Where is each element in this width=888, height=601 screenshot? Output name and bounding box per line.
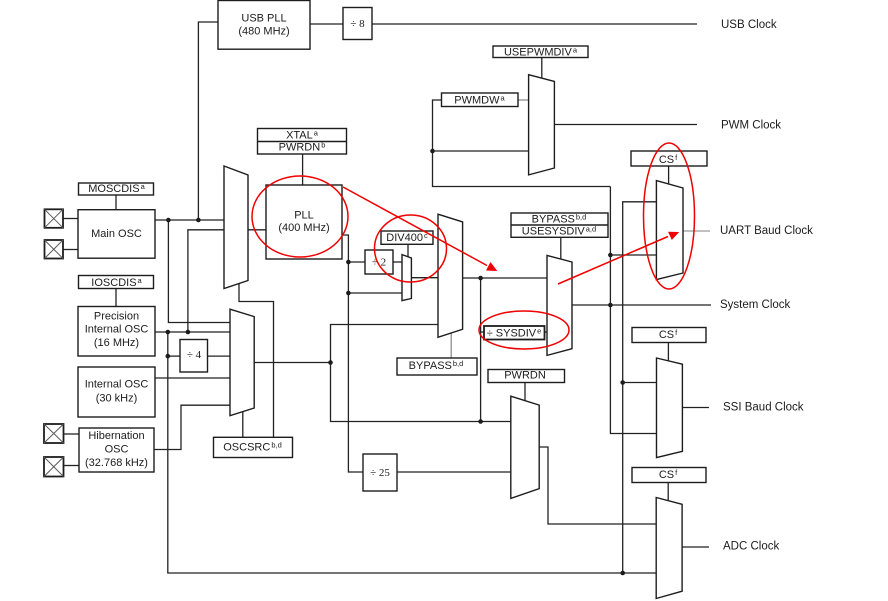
wire PLL branch to divide-by-2 bbox=[348, 261, 365, 263]
wire SSI Baud Clock output bbox=[682, 407, 709, 409]
annotation ellipse around PLL bbox=[252, 176, 348, 257]
svg-text:÷ SYSDIVe: ÷ SYSDIVe bbox=[487, 327, 542, 340]
box divide-by-8 bbox=[343, 8, 372, 40]
wire PWM Clock output bbox=[554, 124, 697, 126]
svg-text:(480 MHz): (480 MHz) bbox=[238, 26, 289, 38]
wire PIOSC branch down and bottom rail to ADC mux bbox=[168, 332, 656, 573]
svg-text:(30 kHz): (30 kHz) bbox=[96, 393, 138, 405]
svg-text:IOSCDISa: IOSCDISa bbox=[91, 276, 142, 289]
crystal pad hibernation lower bbox=[44, 457, 64, 477]
wire crystal stub lower to Main OSC bbox=[63, 249, 78, 251]
annotation arrow SYSDIV to UART mux bbox=[558, 237, 668, 285]
wire Precision OSC output to mux B bbox=[155, 331, 230, 333]
box CS SSI bbox=[632, 328, 706, 343]
wire stub into SYSDIV divider bbox=[481, 331, 484, 333]
wire USB PLL input from Main OSC node bbox=[198, 22, 218, 220]
wire CS select stub ADC bbox=[667, 481, 669, 501]
wire CS select stub SSI bbox=[667, 341, 669, 361]
svg-text:MOSCDISa: MOSCDISa bbox=[88, 182, 145, 195]
svg-text:PLL: PLL bbox=[294, 210, 314, 222]
box Hibernation OSC bbox=[79, 428, 154, 472]
wire hibernation crystal stub lower bbox=[64, 465, 80, 467]
wire mux A select to OSCSRC bbox=[239, 284, 274, 438]
mux PWM clock select bbox=[529, 75, 555, 175]
wire system clock to UART mux input 2 bbox=[610, 254, 656, 256]
svg-text:Hibernation: Hibernation bbox=[88, 430, 144, 442]
svg-text:DIV400c: DIV400c bbox=[386, 231, 428, 244]
wire UART Baud Clock output bbox=[683, 230, 710, 232]
mux SYSDIV select bbox=[547, 255, 572, 355]
annotation arrow PLL to bypass path bbox=[343, 187, 487, 266]
wire OSC net riser and feeds bbox=[331, 325, 511, 422]
svg-text:PWMDWa: PWMDWa bbox=[454, 94, 505, 107]
wire PLL output down to divide-by-25 bbox=[342, 235, 363, 472]
wire PWMDW output to PWM mux bbox=[518, 99, 529, 101]
annotation ellipse around DIV400 bbox=[375, 215, 447, 282]
wire Internal OSC output to mux B bbox=[155, 377, 230, 379]
wire bypass mux output to SYSDIV mux bbox=[463, 277, 547, 279]
svg-text:UART Baud Clock: UART Baud Clock bbox=[720, 225, 813, 237]
svg-text:(16 MHz): (16 MHz) bbox=[94, 337, 139, 349]
box PWRDN bbox=[488, 370, 565, 383]
mux PWRDN select bbox=[511, 396, 539, 498]
wire divide-by-4 output to mux B bbox=[208, 355, 231, 357]
svg-text:SSI Baud Clock: SSI Baud Clock bbox=[723, 402, 804, 414]
wire ADC Clock output bbox=[682, 546, 709, 548]
svg-text:System Clock: System Clock bbox=[720, 299, 791, 311]
svg-text:Internal OSC: Internal OSC bbox=[85, 324, 149, 336]
box USEPWMDIV bbox=[493, 46, 588, 58]
mux A main oscillator select bbox=[224, 166, 248, 289]
svg-text:Main OSC: Main OSC bbox=[91, 228, 142, 240]
wire system clock to PWM mux input 2 bbox=[433, 150, 529, 152]
crystal pad hibernation upper bbox=[44, 424, 64, 443]
box MOSCDIS bbox=[79, 183, 154, 195]
wire mux B select to OSCSRC bbox=[242, 412, 244, 437]
wire mux A output to PLL bbox=[248, 229, 266, 231]
wire SYSDIV divider output to mux bbox=[545, 331, 548, 333]
wire drop to SYSDIV divider and PWRDN mux bbox=[480, 278, 482, 422]
annotation ellipse around UART mux bbox=[644, 143, 695, 289]
box divide-by-2 bbox=[365, 250, 393, 274]
wire Main OSC output to mux A bbox=[155, 219, 224, 221]
box divide-by-25 bbox=[363, 454, 397, 491]
box DIV400 bbox=[381, 231, 433, 244]
wire bypass control to BYPASS box bbox=[450, 333, 452, 358]
wire Hibernation OSC output to mux B bbox=[154, 405, 230, 449]
wire DIV400 control stub bbox=[407, 244, 409, 257]
wire PWRDN control stub bbox=[524, 383, 526, 401]
svg-text:USB PLL: USB PLL bbox=[241, 13, 286, 25]
wire USB Clock output bbox=[372, 23, 697, 25]
svg-text:PWRDNb: PWRDNb bbox=[279, 141, 326, 154]
crystal pad lower bbox=[45, 240, 64, 259]
wire PIOSC branch to SSI mux input 1 bbox=[623, 382, 657, 384]
wire Main OSC branch down to mux B input 1 bbox=[168, 220, 230, 323]
wire USB PLL to divide-by-8 bbox=[310, 23, 343, 25]
wire PLL direct 400MHz to DIV400 mux bbox=[348, 292, 402, 294]
svg-text:÷ 8: ÷ 8 bbox=[350, 18, 365, 30]
wire PIOSC branch up to mux A input 2 bbox=[188, 230, 224, 332]
mux ADC clock select bbox=[656, 498, 682, 599]
box OSCSRC bbox=[214, 437, 293, 457]
box divide-by-SYSDIV bbox=[484, 326, 545, 340]
wire XTAL PWRDN control to PLL bbox=[302, 153, 304, 185]
svg-text:PWRDN: PWRDN bbox=[504, 370, 546, 382]
svg-text:USB Clock: USB Clock bbox=[721, 19, 777, 31]
annotation ellipse around SYSDIV bbox=[479, 311, 569, 349]
wire IOSCDIS control stub bbox=[115, 289, 117, 307]
wire PWRDN mux output to ADC mux input 1 bbox=[539, 447, 656, 524]
svg-text:ADC Clock: ADC Clock bbox=[723, 541, 779, 553]
mux B oscillator source select bbox=[230, 309, 254, 416]
wire divide-by-25 output to PWRDN mux bbox=[397, 471, 511, 473]
svg-text:Internal OSC: Internal OSC bbox=[85, 379, 149, 391]
wire mux B output bbox=[254, 362, 330, 364]
box IOSCDIS bbox=[79, 276, 154, 289]
svg-text:÷ 4: ÷ 4 bbox=[187, 349, 202, 361]
svg-text:(400 MHz): (400 MHz) bbox=[278, 222, 329, 234]
wire divide-by-2 output to DIV400 mux bbox=[393, 261, 402, 263]
wire CS select stub UART bbox=[668, 166, 670, 184]
mux DIV400 select bbox=[402, 255, 411, 301]
wire MOSCDIS control stub bbox=[115, 195, 117, 210]
box CS UART bbox=[631, 151, 707, 166]
crystal pad upper bbox=[45, 209, 64, 228]
svg-text:PWM Clock: PWM Clock bbox=[721, 120, 781, 132]
wire DIV400 mux output to bypass mux bbox=[411, 277, 438, 279]
svg-text:Precision: Precision bbox=[94, 311, 139, 323]
wire PIOSC riser to UART mux input 1 bbox=[623, 202, 657, 573]
box Main OSC bbox=[78, 210, 155, 259]
svg-text:÷ 2: ÷ 2 bbox=[372, 257, 386, 269]
box BYPASS lower bbox=[397, 358, 477, 375]
svg-text:USEPWMDIVa: USEPWMDIVa bbox=[504, 46, 578, 59]
wire system clock horizontal to PWM area bbox=[433, 100, 611, 187]
mux bypass select bbox=[438, 214, 463, 337]
mux SSI baud select bbox=[657, 358, 683, 458]
mux UART baud select bbox=[656, 181, 683, 280]
wire divide-by-4 input bbox=[168, 355, 180, 357]
box Precision Internal OSC bbox=[78, 307, 155, 357]
wire USEPWMDIV select stub bbox=[541, 58, 543, 79]
box PWMDW bbox=[442, 93, 519, 107]
box Internal OSC bbox=[78, 367, 155, 417]
box BYPASS USESYSDIV bbox=[511, 213, 608, 237]
box CS ADC bbox=[632, 468, 706, 483]
box PLL bbox=[266, 185, 342, 259]
wire crystal stub upper to Main OSC bbox=[63, 218, 78, 220]
wire hibernation crystal stub upper bbox=[64, 433, 80, 435]
wire System Clock output rail bbox=[572, 304, 711, 306]
svg-text:÷ 25: ÷ 25 bbox=[370, 467, 390, 479]
box divide-by-4 bbox=[180, 340, 208, 373]
box USB PLL bbox=[218, 1, 310, 50]
wire system clock riser bbox=[610, 187, 656, 434]
wire BYPASS USESYSDIV select to SYSDIV mux bbox=[560, 237, 562, 259]
svg-text:(32.768 kHz): (32.768 kHz) bbox=[85, 457, 148, 469]
box XTAL PWRDN bbox=[258, 129, 347, 155]
svg-text:OSC: OSC bbox=[105, 444, 129, 456]
